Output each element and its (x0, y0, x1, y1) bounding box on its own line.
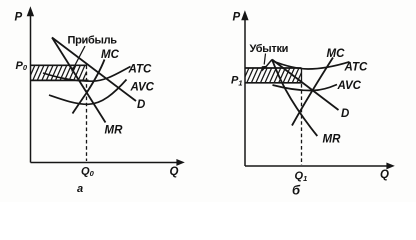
dashed line Q1 (301, 84, 303, 165)
svg-text:Прибыль: Прибыль (68, 35, 118, 47)
svg-text:P: P (233, 12, 241, 24)
D line (52, 38, 136, 102)
svg-text:Q0: Q0 (81, 166, 95, 179)
svg-text:AVC: AVC (337, 80, 362, 92)
svg-text:MC: MC (327, 48, 346, 60)
svg-text:P1: P1 (231, 75, 243, 88)
svg-text:AVC: AVC (130, 82, 155, 94)
x-axis Q (245, 163, 395, 170)
svg-text:P: P (15, 12, 23, 24)
svg-text:ATC: ATC (128, 64, 152, 76)
y-axis P (27, 6, 34, 162)
svg-text:а: а (77, 183, 83, 195)
callout arrow from label (262, 54, 272, 72)
AVC curve (273, 85, 338, 91)
ATC curve (43, 67, 131, 82)
MR line (272, 60, 317, 137)
svg-text:Q: Q (380, 169, 389, 181)
D line (272, 60, 339, 111)
svg-text:ATC: ATC (344, 62, 368, 74)
MR line (52, 38, 106, 123)
callout arrow from label (71, 46, 85, 72)
svg-text:D: D (341, 108, 349, 120)
loss rectangle hatched (237, 67, 309, 85)
svg-text:MR: MR (323, 134, 342, 146)
svg-text:Q: Q (170, 166, 179, 178)
MC curve (73, 60, 105, 114)
svg-text:MC: MC (101, 49, 120, 61)
MC curve (292, 58, 333, 126)
dashed line Q0 (86, 66, 88, 162)
svg-text:Q1: Q1 (295, 170, 308, 183)
svg-text:б: б (292, 183, 301, 198)
AVC curve (49, 80, 127, 105)
x-axis Q (31, 159, 185, 166)
profit rectangle hatched (23, 64, 95, 82)
svg-text:D: D (137, 99, 145, 111)
svg-text:Убытки: Убытки (250, 43, 289, 55)
y-axis P (241, 10, 248, 166)
svg-text:P0: P0 (16, 60, 28, 72)
svg-text:MR: MR (105, 125, 124, 137)
ATC curve (272, 61, 350, 70)
